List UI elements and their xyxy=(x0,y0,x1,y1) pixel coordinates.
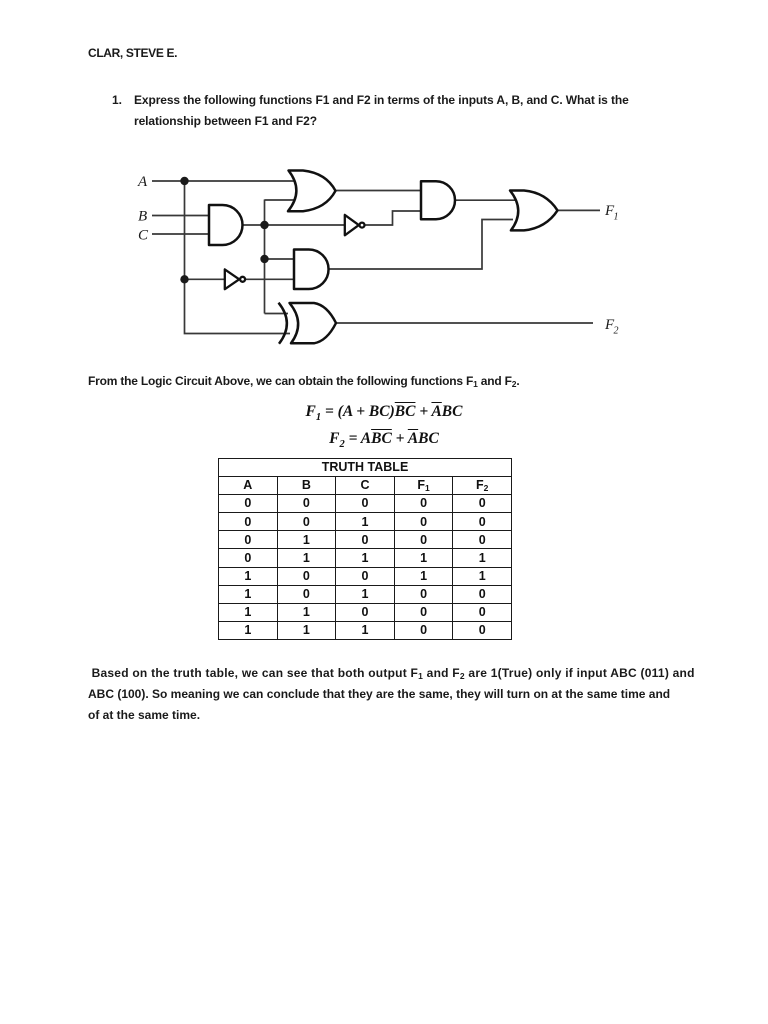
wire to XOR upper input xyxy=(265,313,289,315)
wire AND2 output to OR2 upper input xyxy=(455,199,517,201)
junction node at NOT2 input xyxy=(180,275,188,283)
XOR gate U7 body xyxy=(290,303,337,343)
NOT gate U3 triangle xyxy=(345,215,359,235)
wire NOT2 input xyxy=(185,278,226,280)
NOT gate U3 bubble xyxy=(360,223,365,228)
OR gate U6 (output F1) xyxy=(510,191,558,231)
equation F2 xyxy=(0,430,768,450)
wire XOR output F2 xyxy=(336,322,593,324)
logic circuit diagram xyxy=(0,0,768,400)
svg-text:C: C xyxy=(138,228,149,244)
OR gate U2 (top) xyxy=(288,171,336,212)
truth table xyxy=(218,458,512,640)
svg-text:1: 1 xyxy=(614,212,619,223)
question item 1 xyxy=(112,90,122,111)
wire vertical bus at x=264.5 xyxy=(264,200,266,314)
wire AND1 output to NOT1 xyxy=(243,224,346,226)
AND gate U4 (second level) xyxy=(421,181,455,219)
AND gate U5 (middle) xyxy=(294,250,329,290)
junction node AND3 upper branch xyxy=(260,255,268,263)
wire NOT1 output to AND2 lower input xyxy=(366,211,422,225)
wire vertical branch from A xyxy=(185,181,291,334)
wire OR1 output to AND2 upper input xyxy=(336,190,422,192)
wire to AND3 upper input xyxy=(265,258,295,260)
AND gate U1 (inputs B,C) xyxy=(209,205,243,245)
XOR gate U7 extra input arc xyxy=(279,303,287,344)
equation F1 xyxy=(0,403,768,423)
wire AND3 output to OR2 lower input xyxy=(329,220,514,270)
wire NOT2 output to AND3 lower input xyxy=(246,278,294,280)
svg-text:B: B xyxy=(138,209,147,225)
caption under circuit xyxy=(88,374,519,388)
svg-text:2: 2 xyxy=(614,326,619,337)
conclusion paragraph xyxy=(88,663,738,727)
wire input C xyxy=(152,233,209,235)
junction node on A branch xyxy=(180,177,188,185)
wire OR2 output F1 xyxy=(558,209,601,211)
wire input A xyxy=(152,180,296,182)
NOT gate U8 bubble xyxy=(240,277,245,282)
wire input B xyxy=(152,215,209,217)
NOT gate U8 triangle xyxy=(225,269,239,289)
svg-text:A: A xyxy=(137,174,148,190)
junction node AND1 output xyxy=(260,221,268,229)
wire to OR1 lower input xyxy=(265,199,297,201)
header: student name xyxy=(88,46,177,60)
